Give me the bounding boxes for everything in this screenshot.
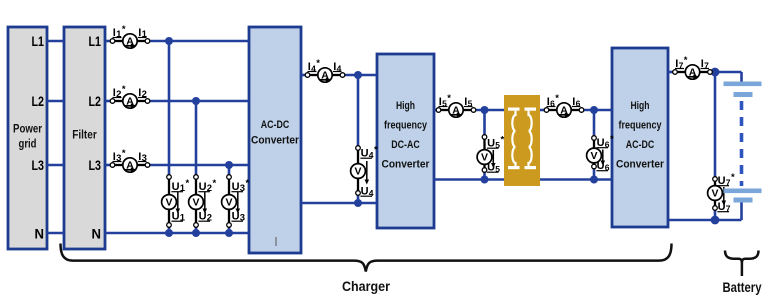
battery positive long plate <box>724 82 762 87</box>
wire DC-AC converter to ammeter A5 <box>434 109 437 112</box>
svg-text:grid: grid <box>19 139 37 151</box>
svg-text:Charger: Charger <box>342 278 390 294</box>
junction node L2/U2 <box>192 97 200 105</box>
wire ammeter A6 to HF AC-DC converter <box>582 109 612 112</box>
wire AC-DC converter to ammeter A4 <box>301 74 308 77</box>
high frequency DC-AC converter block <box>377 54 434 228</box>
AC-DC converter block <box>249 27 301 253</box>
wire DC bus bottom AC-DC to DC-AC converter <box>301 202 377 205</box>
wire battery positive stub <box>740 72 743 82</box>
svg-text:Filter: Filter <box>72 130 97 142</box>
wire L1 filter to ammeter A1 <box>105 40 114 43</box>
voltmeter U5 with labels U5* U5 <box>477 135 504 174</box>
wire ammeter A5 to transformer <box>474 109 504 112</box>
svg-text:Converter: Converter <box>251 135 300 147</box>
svg-text:V: V <box>192 197 199 209</box>
wire U4 to bottom bus <box>357 193 360 203</box>
junction node battery return / U7 <box>711 216 720 225</box>
svg-text:V: V <box>225 197 232 209</box>
junction node N/U1 <box>165 229 173 237</box>
wire U5 to bottom <box>483 170 486 180</box>
svg-text:Power: Power <box>13 124 42 136</box>
svg-text:frequency: frequency <box>384 120 428 132</box>
filter row labels L1 L2 L3 N <box>89 33 102 242</box>
wire N filter to AC-DC converter <box>105 232 249 235</box>
svg-text:L3: L3 <box>89 157 102 173</box>
junction node N/U2 <box>192 229 200 237</box>
svg-text:V: V <box>711 188 718 200</box>
svg-text:Battery: Battery <box>723 279 762 295</box>
junction node N/U3 <box>225 229 233 237</box>
wire U4 sense drop <box>357 75 360 148</box>
svg-text:L1: L1 <box>32 33 45 49</box>
junction node primary bottom / U5 <box>481 176 489 184</box>
svg-text:V: V <box>165 197 172 209</box>
wire L2 grid to filter <box>47 100 64 103</box>
battery bottom long plate <box>724 189 762 194</box>
ammeter A4 with labels I4* I4 <box>305 58 345 82</box>
battery dashed cell continuation <box>740 101 744 186</box>
wire U2 sense drop from L2 <box>195 101 198 177</box>
wire bottom DC-AC converter to transformer <box>434 178 504 181</box>
wire L2 filter to ammeter A2 <box>105 100 114 103</box>
wire transformer to ammeter A6 <box>540 109 547 112</box>
wire U2 to N <box>195 225 198 233</box>
wire U7 to bottom <box>714 208 717 220</box>
wire U6 sense drop <box>593 110 596 138</box>
svg-text:AC-DC: AC-DC <box>626 139 655 151</box>
voltmeter U7 with labels U7* U7 <box>708 172 735 213</box>
battery negative short plate top cell <box>734 92 753 97</box>
wire U5 sense drop <box>483 110 486 137</box>
wire U3 sense drop from L3 <box>228 165 231 177</box>
voltmeter U2 with labels U2* U2 <box>189 175 217 228</box>
wire L2 ammeter A2 to AC-DC converter <box>146 100 249 103</box>
wire L3 filter to ammeter A3 <box>105 164 114 167</box>
cursor artifact in AC-DC box <box>275 237 277 246</box>
wire HF AC-DC converter to ammeter A7 <box>668 71 675 74</box>
junction node DC bus bottom / U4 <box>354 199 362 207</box>
power grid block <box>8 27 47 249</box>
svg-text:V: V <box>354 166 361 178</box>
wire L3 ammeter A3 to AC-DC converter <box>146 164 249 167</box>
battery brace <box>725 251 759 277</box>
ammeter A2 with labels I2* I2 <box>110 84 150 108</box>
wire ammeter A7 to battery positive <box>710 71 742 74</box>
wire U1 to N <box>168 225 171 233</box>
svg-text:N: N <box>35 226 45 242</box>
junction node L3/U3 <box>225 161 233 169</box>
svg-text:Converter: Converter <box>616 159 665 171</box>
wire bottom HF AC-DC converter to battery negative <box>668 219 742 222</box>
voltmeter U4 with labels U4* U4 <box>351 145 378 198</box>
wire L3 grid to filter <box>47 164 64 167</box>
wire battery negative stub <box>740 202 743 220</box>
svg-text:L3: L3 <box>32 157 45 173</box>
ammeter A5 with labels I5* I5 <box>436 93 476 117</box>
junction node secondary bottom / U6 <box>590 176 598 184</box>
svg-text:High: High <box>631 100 650 112</box>
power grid row labels L1 L2 L3 N <box>32 33 45 242</box>
wire N grid to filter <box>47 232 64 235</box>
svg-text:Converter: Converter <box>382 159 431 171</box>
svg-text:L2: L2 <box>32 93 45 109</box>
filter block <box>64 27 105 249</box>
voltmeter U3 with labels U3* U3 <box>222 175 250 228</box>
svg-text:DC-AC: DC-AC <box>391 139 420 151</box>
svg-text:L1: L1 <box>89 33 102 49</box>
wire ammeter A4 to DC-AC converter <box>343 74 377 77</box>
junction node DC bus top / U4 <box>354 71 362 79</box>
junction node transformer primary / U5 <box>481 106 489 114</box>
wire L1 ammeter A1 to AC-DC converter <box>146 40 249 43</box>
wire L1 grid to filter <box>47 40 64 43</box>
svg-text:High: High <box>396 100 415 112</box>
wire U7 sense drop <box>714 72 717 179</box>
ammeter A3 with labels I3* I3 <box>110 148 150 172</box>
svg-text:N: N <box>92 226 102 242</box>
junction node transformer secondary / U6 <box>590 106 598 114</box>
wire U3 to N <box>228 225 231 233</box>
ammeter A6 with labels I6* I6 <box>544 93 584 117</box>
junction node battery bus / U7 <box>711 68 720 77</box>
svg-text:AC-DC: AC-DC <box>261 119 290 131</box>
junction node L1/U1 <box>165 37 173 45</box>
high frequency AC-DC converter block <box>612 48 668 227</box>
voltmeter U6 with labels U6* U6 <box>587 134 614 172</box>
wire U1 sense drop from L1 <box>168 41 171 177</box>
ammeter A7 with labels I7* I7 <box>673 55 713 79</box>
svg-text:frequency: frequency <box>619 120 663 132</box>
svg-text:L2: L2 <box>89 93 102 109</box>
wire U6 to bottom <box>593 167 596 180</box>
transformer T1 <box>504 95 540 186</box>
charger brace <box>61 244 672 272</box>
battery bottom short plate <box>734 198 753 203</box>
ammeter A1 with labels I1* I1 <box>110 24 150 48</box>
voltmeter U1 with labels U1* U1 <box>162 175 190 228</box>
wire bottom transformer to HF AC-DC converter <box>540 178 612 181</box>
